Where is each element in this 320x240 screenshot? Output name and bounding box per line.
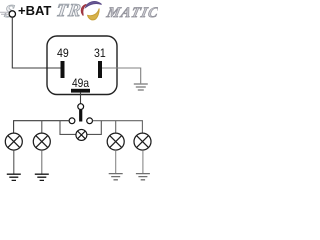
wire lamp L1 to ground [13, 150, 15, 174]
logo swirl red crescent [81, 4, 86, 15]
pin 31 bar [98, 61, 102, 78]
pin 49a bar [71, 89, 90, 93]
wire right bus [93, 121, 143, 134]
pin label 31 [94, 46, 106, 60]
relay box U1 [47, 36, 117, 95]
switch lever [79, 110, 82, 122]
switch right contact [87, 118, 93, 124]
wire pin 31 to ground [102, 68, 141, 83]
watermark speed lines [0, 0, 20, 20]
lamp L3 [107, 133, 124, 150]
switch left contact [69, 118, 75, 124]
pin 49 bar [61, 61, 65, 78]
ground under L2 [35, 174, 49, 180]
ground under L4 [136, 174, 150, 180]
wire lamp L3 feed [115, 121, 117, 133]
wire pilot lamp right drop [87, 121, 101, 135]
+BAT terminal circle [9, 11, 15, 17]
watermark word MATIC [105, 5, 161, 22]
wire lamp L2 to ground [41, 150, 43, 174]
ground symbol right of relay [134, 84, 148, 90]
ground under L1 [7, 174, 21, 180]
wire lamp L4 to ground [142, 150, 144, 173]
watermark letter S [3, 1, 16, 22]
lamp L4 [134, 133, 151, 150]
wire +BAT to pin 49 [12, 17, 60, 68]
logo swirl purple crescent [86, 2, 102, 8]
lamp L2 [33, 133, 50, 150]
pin label 49a [72, 76, 89, 90]
switch S1 common circle [78, 104, 84, 110]
pin label 49 [57, 46, 69, 60]
ground under L3 [109, 174, 123, 180]
logo swirl [0, 0, 158, 202]
logo swirl yellow crescent [88, 9, 100, 20]
+BAT label [18, 3, 51, 18]
wire pilot lamp left drop [60, 121, 76, 135]
wire 49a to switch [80, 93, 82, 104]
wire lamp L2 feed [41, 121, 43, 133]
pilot lamp [76, 129, 87, 140]
watermark letters TR [55, 0, 83, 21]
wire lamp L3 to ground [115, 150, 117, 173]
lamp L1 [5, 133, 22, 150]
wire left bus [14, 121, 69, 133]
